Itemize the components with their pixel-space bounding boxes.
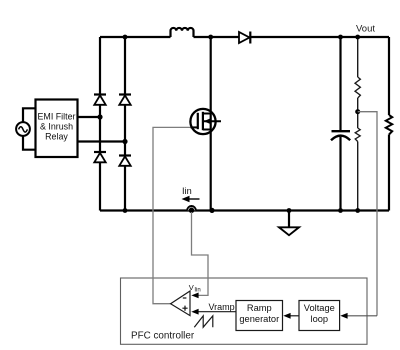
svg-text:V: V [189,283,194,292]
svg-text:Vramp: Vramp [209,302,235,312]
svg-text:Iin: Iin [182,186,192,196]
wire: feedback from tap to voltage loop [358,112,377,316]
diode D3 (bridge lower-left) [94,151,106,153]
diode D2 (bridge upper-right) [119,93,131,95]
wire: top rail [100,36,389,38]
node: top rail divider [355,35,360,40]
EMI Filter & Inrush Relay box [36,100,78,158]
AC source V1 [16,122,30,136]
node: bottom rail divider [355,208,360,213]
wire: divider branch [357,37,359,211]
node: sense dot [189,208,195,214]
wire: right edge (load branch) [388,37,390,211]
node: top rail right leg [123,35,128,40]
resistor R1 (divider top) [355,77,360,98]
Voltage loop box [299,301,340,331]
node: top rail capacitor [338,35,343,40]
arrow into inverting input [191,293,198,299]
wire: gate signal from comparator [153,127,191,303]
diode D5 (boost) [239,32,250,43]
inductor L1 [171,28,194,37]
svg-text:PFC controller: PFC controller [131,331,195,342]
sawtooth symbol [194,316,213,327]
wire: output capacitor branch [339,37,341,211]
ground [287,208,292,213]
svg-text:EMI Filter: EMI Filter [38,112,76,122]
svg-text:loop: loop [311,314,329,324]
diode D1 (bridge upper-left) [94,93,106,95]
svg-text:Voltage: Voltage [304,303,335,313]
node: EMI top to left leg [97,114,102,119]
resistor R2 (divider bottom) [355,128,360,142]
svg-text:Vout: Vout [356,24,375,35]
diode D4 (bridge lower-right) [119,154,131,156]
wire: left bridge leg [99,37,101,211]
resistor R3 (load) [386,115,392,135]
svg-text:generator: generator [239,314,279,324]
wire: AC loop [23,108,36,149]
transistor Q1 (MOSFET) [190,109,215,134]
svg-text:& Inrush: & Inrush [40,122,73,132]
op-amp comparator U2 [171,291,190,316]
Iin arrow [188,198,200,200]
node: bottom rail capacitor [338,208,343,213]
node: bottom rail right leg [123,208,128,213]
PFC controller box U1 [121,278,368,344]
wire: current sense to comparator [192,212,209,295]
node: drain junction on top rail [208,35,213,40]
wire+arrow: feedback into voltage loop [346,315,377,317]
wire: bottom rail [100,209,389,211]
svg-text:Ramp: Ramp [247,303,272,313]
wire: EMI output top [78,116,101,118]
node: bottom rail source [209,208,214,213]
capacitor C1 [332,130,351,132]
wire: EMI output bottom [78,140,126,142]
node: EMI bottom to right leg [122,139,127,144]
svg-text:Iin: Iin [194,287,200,293]
node: divider tap [355,109,360,114]
Ramp generator box [236,301,283,331]
wire: MOSFET drain/source branch [210,37,212,211]
current sense bump [187,206,196,210]
wire: right bridge leg [124,37,126,211]
wire: ramp to + input [197,311,236,313]
svg-text:Relay: Relay [45,132,68,142]
wire+arrow: voltage loop to ramp generator [289,315,299,317]
